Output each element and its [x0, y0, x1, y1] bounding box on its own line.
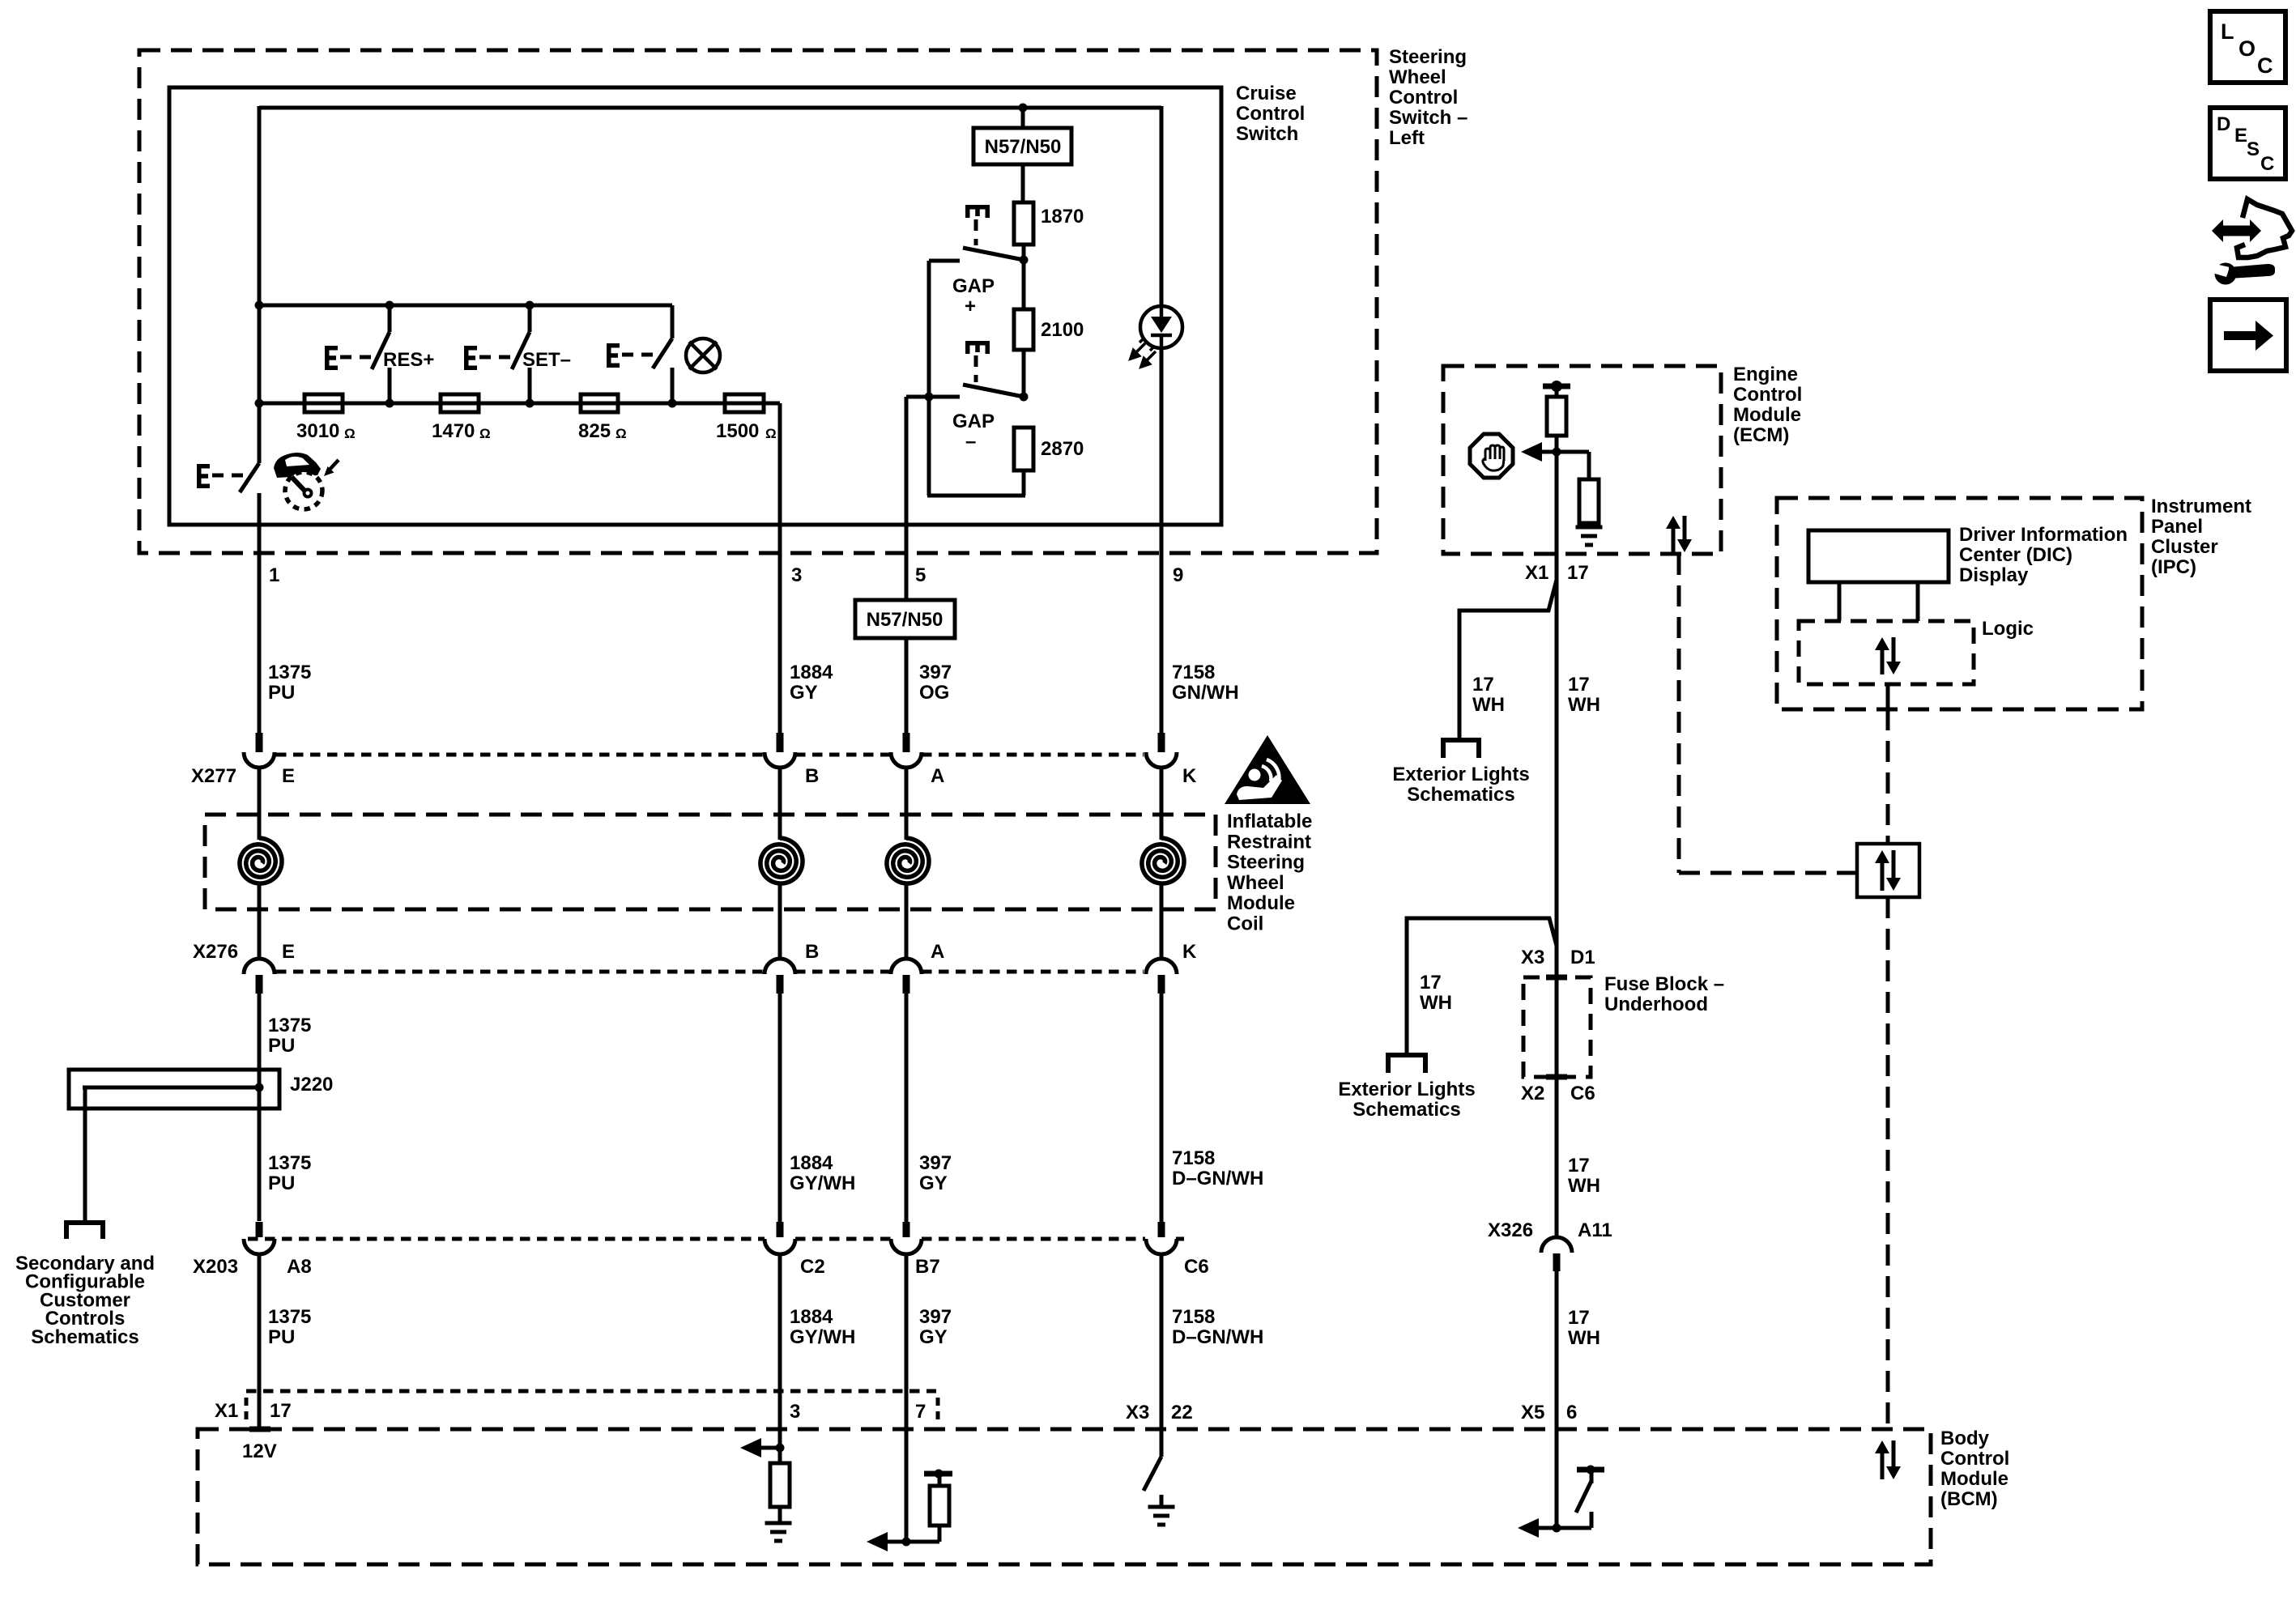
resistor 2870: [1014, 428, 1033, 470]
svg-text:D–GN/WH: D–GN/WH: [1172, 1168, 1263, 1189]
svg-text:E: E: [282, 765, 295, 787]
node: GAP+ junction: [1020, 256, 1029, 265]
pin 3: [778, 525, 782, 733]
svg-text:GY: GY: [919, 1326, 948, 1348]
ground (BCM pin3): [765, 1523, 792, 1541]
BCM connector header row X1: [246, 1389, 936, 1394]
svg-text:RES+: RES+: [383, 349, 434, 371]
svg-text:D: D: [2217, 113, 2230, 135]
icon: cruise control (car+speedometer): [274, 453, 339, 509]
svg-text:Wheel: Wheel: [1227, 872, 1284, 894]
svg-text:Cruise: Cruise: [1236, 83, 1297, 104]
svg-text:+: +: [965, 296, 976, 317]
svg-text:X3: X3: [1126, 1402, 1149, 1423]
tick X1 right: [936, 1398, 940, 1423]
svg-text:1470: 1470: [432, 420, 475, 442]
svg-text:17: 17: [1420, 972, 1442, 994]
svg-text:WH: WH: [1420, 992, 1452, 1014]
node: bus-left junction: [255, 301, 264, 310]
svg-text:Engine: Engine: [1733, 364, 1798, 385]
svg-text:(BCM): (BCM): [1940, 1488, 1998, 1510]
svg-text:Body: Body: [1940, 1428, 1990, 1449]
svg-text:1375: 1375: [268, 1306, 311, 1328]
switch cancel (with lamp): [671, 305, 675, 338]
svg-text:1884: 1884: [790, 1306, 833, 1328]
svg-text:Schematics: Schematics: [1352, 1099, 1460, 1121]
icon: jump-to-location (arrow hand wrench): [2209, 199, 2292, 285]
wire: branch to exterior lights (upper): [1459, 580, 1557, 740]
ground (BCM X3/22): [1148, 1507, 1175, 1525]
wire: ECM 17WH down: [1555, 554, 1559, 946]
svg-text:17: 17: [1472, 674, 1494, 696]
svg-text:Wheel: Wheel: [1389, 66, 1446, 88]
wire pin1 X203->BCM 12V: [258, 1254, 262, 1429]
icon box next-arrow: [2210, 300, 2286, 371]
svg-text:PU: PU: [268, 1035, 295, 1057]
wire pin5 X276->X203: [905, 994, 909, 1222]
wire: N57/N50 drop: [1021, 108, 1025, 128]
svg-text:7158: 7158: [1172, 1306, 1215, 1328]
wire: branch to exterior lights (lower): [1407, 918, 1557, 1055]
pin 5: [905, 525, 909, 733]
svg-text:C2: C2: [800, 1256, 825, 1278]
wire: pin 5 riser: [905, 397, 909, 525]
wire: 1870 to GAP+ junction: [1022, 245, 1026, 262]
svg-text:6: 6: [1566, 1402, 1577, 1423]
splice J220: [69, 1070, 279, 1108]
svg-text:2100: 2100: [1041, 319, 1084, 341]
switch GAP + (resume/accel gap switch): [965, 205, 990, 218]
wire pin1 X276->J220: [258, 994, 262, 1221]
svg-text:Switch: Switch: [1236, 123, 1298, 145]
svg-text:C6: C6: [1184, 1256, 1209, 1278]
svg-text:12V: 12V: [242, 1440, 277, 1462]
dashed box: Instrument Panel Cluster (IPC): [1777, 498, 2142, 709]
BCM pin3: pullup to ground: [776, 1444, 785, 1453]
label box N57/N50 (cruise switch illumination): [973, 128, 1071, 164]
svg-text:Logic: Logic: [1982, 618, 2034, 640]
svg-text:C: C: [2260, 153, 2274, 175]
svg-text:N57/N50: N57/N50: [867, 609, 944, 631]
wire: gap loop left side: [927, 261, 931, 496]
clockspring coil at x=963: [778, 768, 782, 840]
serial data line ECM to gateway: [1677, 554, 1681, 873]
serial data arrows in ECM: [1666, 516, 1692, 552]
connector X277 pin E: [256, 733, 263, 752]
gateway box with arrows: [1857, 844, 1919, 897]
dashed box: Inflatable Restraint Steering Wheel Module Coil: [205, 815, 1216, 909]
resistor 1870: [1014, 202, 1033, 245]
switch cruise on/off (pin1 line): [240, 463, 259, 492]
svg-text:GAP: GAP: [952, 275, 995, 297]
svg-text:S: S: [2247, 138, 2260, 160]
svg-text:17: 17: [270, 1400, 292, 1422]
svg-text:1375: 1375: [268, 662, 311, 683]
dashed box: Engine Control Module (ECM): [1443, 366, 1721, 554]
svg-text:Steering: Steering: [1389, 46, 1467, 68]
resistor 2100: [1022, 260, 1026, 309]
svg-text:GN/WH: GN/WH: [1172, 682, 1239, 704]
svg-text:X3: X3: [1521, 947, 1544, 968]
svg-text:Underhood: Underhood: [1604, 994, 1708, 1015]
svg-text:E: E: [282, 941, 295, 963]
connector X276 pin E: [244, 959, 275, 974]
svg-text:B: B: [805, 765, 819, 787]
svg-text:Coil: Coil: [1227, 913, 1263, 935]
connector X276 pin B: [765, 959, 795, 974]
svg-text:Fuse Block –: Fuse Block –: [1604, 973, 1724, 995]
wire: LED riser x=1434 (pin 9): [1160, 106, 1164, 525]
wire: J220 branch to customer controls: [83, 1087, 87, 1223]
svg-text:Control: Control: [1389, 87, 1458, 109]
lamp symbol (cancel switch illumination): [686, 338, 720, 372]
svg-text:7158: 7158: [1172, 662, 1215, 683]
clockspring coil at x=1434: [1160, 768, 1164, 840]
svg-text:X277: X277: [191, 765, 236, 787]
node: GAP- junction on resistor chain: [1020, 393, 1029, 402]
svg-text:Schematics: Schematics: [31, 1326, 138, 1348]
svg-text:Exterior Lights: Exterior Lights: [1392, 764, 1529, 785]
pin 1: [258, 525, 262, 733]
node: row-left junction: [255, 399, 264, 408]
dashed box: Body Control Module (BCM): [198, 1429, 1931, 1564]
resistor ECM to ground: [1579, 479, 1599, 523]
connector row X203: [248, 1237, 765, 1241]
svg-text:(ECM): (ECM): [1733, 424, 1789, 446]
connector X277 pin B: [777, 733, 784, 752]
connector X277 pin A: [903, 733, 910, 752]
fuse block top terminal: [1546, 975, 1567, 981]
svg-text:N57/N50: N57/N50: [985, 136, 1062, 158]
svg-text:WH: WH: [1472, 694, 1505, 716]
arrow to stop lamp icon: [1521, 442, 1558, 462]
svg-text:1500: 1500: [716, 420, 759, 442]
switch SET-: [526, 301, 535, 310]
svg-text:A: A: [931, 941, 944, 963]
wire: inner top wire from pin1 riser to LED riser: [259, 106, 1161, 110]
svg-text:O: O: [2238, 36, 2256, 61]
svg-text:X1: X1: [1525, 562, 1548, 584]
wire: GAP+ left contact: [929, 259, 960, 263]
fuse block bottom terminal: [1546, 1074, 1567, 1080]
svg-text:D1: D1: [1570, 947, 1595, 968]
BCM pin7: pullup: [902, 1538, 911, 1547]
wire: fuse block down to X326: [1555, 944, 1559, 1237]
svg-text:(IPC): (IPC): [2151, 556, 2196, 578]
svg-text:3: 3: [791, 564, 802, 586]
wire: gap loop bottom: [927, 494, 1025, 498]
svg-text:Ω: Ω: [479, 426, 491, 441]
svg-text:OG: OG: [919, 682, 949, 704]
svg-text:Center (DIC): Center (DIC): [1959, 544, 2072, 566]
svg-text:A11: A11: [1578, 1219, 1612, 1241]
switch blade BCM X3-22: [1144, 1457, 1161, 1491]
icon box LOC: [2210, 11, 2285, 83]
svg-text:17: 17: [1568, 1307, 1590, 1329]
dashed box: Logic: [1799, 621, 1974, 684]
serial data arrows in BCM: [1875, 1440, 1901, 1479]
svg-text:L: L: [2221, 19, 2234, 44]
svg-text:825: 825: [578, 420, 611, 442]
off-page bracket: secondary controls: [66, 1223, 103, 1239]
svg-text:C: C: [2257, 53, 2273, 78]
svg-text:Steering: Steering: [1227, 852, 1305, 874]
svg-text:17: 17: [1568, 1155, 1590, 1177]
svg-text:1: 1: [269, 564, 279, 586]
svg-text:Ω: Ω: [765, 426, 777, 441]
serial data line IPC to gateway: [1886, 709, 1890, 844]
svg-text:WH: WH: [1568, 1327, 1600, 1349]
svg-text:Inflatable: Inflatable: [1227, 811, 1312, 832]
resistor 1500 ohm: [725, 394, 764, 412]
svg-text:1870: 1870: [1041, 206, 1084, 228]
wire ECM right branch to ground: [1557, 450, 1589, 454]
svg-text:17: 17: [1567, 562, 1589, 584]
svg-text:X5: X5: [1521, 1402, 1544, 1423]
wire: GAP- left contact / pin5 tap: [906, 395, 960, 399]
node ECM junction: [1553, 448, 1561, 457]
wire: left riser x=320 (pin 1 feed): [258, 106, 262, 463]
svg-text:GY: GY: [919, 1172, 948, 1194]
connector row X276: [276, 970, 765, 974]
svg-text:A8: A8: [287, 1256, 312, 1278]
outer dashed box: Steering Wheel Control Switch - Left: [139, 50, 1377, 553]
svg-text:WH: WH: [1568, 694, 1600, 716]
connector X277 pin K: [1158, 733, 1165, 752]
pin 9: [1160, 525, 1164, 733]
resistor ECM pullup: [1547, 397, 1566, 436]
LED indicator (cruise engaged lamp): [1131, 306, 1182, 367]
node: junction on top wire feeding N57/N50: [1019, 104, 1028, 113]
solid box: DIC display: [1808, 530, 1949, 582]
serial data arrows in Logic: [1875, 637, 1901, 674]
svg-text:1375: 1375: [268, 1152, 311, 1174]
svg-text:1884: 1884: [790, 1152, 833, 1174]
svg-text:Control: Control: [1940, 1448, 2009, 1470]
label box N57/N50 on pin 5 wire: [855, 600, 955, 638]
connector X203 pin C2: [777, 1222, 784, 1237]
svg-text:7158: 7158: [1172, 1147, 1215, 1169]
connector X203 pin A8: [256, 1222, 263, 1237]
svg-text:Module: Module: [1227, 892, 1295, 914]
icon: cruise disable (hand in octagon): [1470, 434, 1513, 478]
svg-text:PU: PU: [268, 1326, 295, 1348]
svg-text:Cluster: Cluster: [2151, 536, 2218, 558]
svg-text:WH: WH: [1568, 1175, 1600, 1197]
svg-text:A: A: [931, 765, 944, 787]
connector X276 pin K: [1146, 959, 1177, 974]
svg-text:Control: Control: [1733, 384, 1802, 406]
wire: row to pin3 riser: [764, 402, 780, 406]
ground (ECM): [1576, 527, 1603, 545]
svg-text:E: E: [2234, 125, 2247, 147]
wire: resistor row: [259, 402, 780, 406]
svg-text:Module: Module: [1733, 404, 1801, 426]
svg-text:X276: X276: [193, 941, 238, 963]
connector X203 pin B7: [903, 1222, 910, 1237]
terminal 12V: [249, 1427, 270, 1432]
wire: logic to IPC edge: [1886, 684, 1890, 709]
svg-text:Driver Information: Driver Information: [1959, 524, 2128, 546]
wire: X326 to BCM X5: [1555, 1271, 1559, 1429]
svg-text:X1: X1: [215, 1400, 238, 1422]
svg-text:Ω: Ω: [616, 426, 627, 441]
svg-text:3010: 3010: [296, 420, 339, 442]
svg-text:Ω: Ω: [344, 426, 356, 441]
svg-text:X203: X203: [193, 1256, 238, 1278]
svg-text:1375: 1375: [268, 1015, 311, 1036]
svg-text:GAP: GAP: [952, 411, 995, 432]
clockspring coil at x=320: [258, 768, 262, 840]
svg-text:Control: Control: [1236, 103, 1305, 125]
svg-text:PU: PU: [268, 682, 295, 704]
svg-text:397: 397: [919, 662, 952, 683]
connector row X277: [276, 753, 765, 757]
svg-text:X326: X326: [1488, 1219, 1533, 1241]
svg-text:Panel: Panel: [2151, 516, 2203, 538]
svg-text:Schematics: Schematics: [1407, 784, 1514, 806]
svg-text:397: 397: [919, 1152, 952, 1174]
wire K X276->X203: [1160, 994, 1164, 1222]
svg-text:22: 22: [1171, 1402, 1193, 1423]
svg-text:3: 3: [790, 1401, 800, 1423]
wire pin5 X203->BCM: [905, 1254, 909, 1542]
switch GAP - (coast gap switch): [965, 341, 990, 354]
wire: switch bus: [259, 304, 672, 308]
svg-text:K: K: [1182, 765, 1197, 787]
svg-text:C6: C6: [1570, 1083, 1595, 1104]
svg-text:GY/WH: GY/WH: [790, 1172, 855, 1194]
svg-text:Exterior Lights: Exterior Lights: [1338, 1079, 1475, 1100]
svg-text:PU: PU: [268, 1172, 295, 1194]
svg-text:Switch –: Switch –: [1389, 107, 1467, 129]
svg-text:B: B: [805, 941, 819, 963]
svg-text:D–GN/WH: D–GN/WH: [1172, 1326, 1263, 1348]
svg-text:Instrument: Instrument: [2151, 496, 2251, 517]
svg-text:7: 7: [915, 1401, 926, 1423]
terminal in ECM: [1543, 384, 1570, 389]
wire pin3 X276->X203: [778, 994, 782, 1222]
svg-text:SET–: SET–: [522, 349, 571, 371]
svg-text:17: 17: [1568, 674, 1590, 696]
svg-text:Display: Display: [1959, 564, 2029, 586]
svg-text:1884: 1884: [790, 662, 833, 683]
svg-text:GY/WH: GY/WH: [790, 1326, 855, 1348]
icon: airbag warning triangle: [1225, 735, 1310, 804]
solid box: Cruise Control Switch: [169, 87, 1221, 525]
svg-text:GY: GY: [790, 682, 818, 704]
connector X203 pin C6: [1158, 1222, 1165, 1237]
svg-text:–: –: [965, 431, 976, 453]
icon box DESC: [2210, 108, 2285, 179]
resistor 1470 ohm: [441, 394, 479, 412]
switch blade BCM X5-6: [1576, 1481, 1591, 1513]
svg-text:B7: B7: [915, 1256, 940, 1278]
resistor 825 ohm: [581, 394, 618, 412]
serial data line gateway to BCM: [1886, 897, 1890, 1429]
svg-text:Module: Module: [1940, 1468, 2008, 1490]
svg-text:K: K: [1182, 941, 1197, 963]
svg-text:9: 9: [1173, 564, 1183, 586]
terminal bar BCM pin7: [924, 1471, 952, 1477]
tick X1 left: [245, 1398, 249, 1423]
wire K X203->BCM X3: [1160, 1254, 1164, 1457]
wire pin3 X203->BCM: [778, 1254, 782, 1450]
node: GAP- junction on loop: [925, 393, 934, 402]
resistor 3010 ohm: [305, 394, 343, 412]
svg-text:Left: Left: [1389, 127, 1425, 149]
svg-text:X2: X2: [1521, 1083, 1544, 1104]
clockspring coil at x=1119: [905, 768, 909, 840]
wires DIC to logic: [1838, 582, 1842, 621]
switch RES+: [386, 301, 394, 310]
wire: N57/N50 box to resistor 1870: [1021, 164, 1025, 202]
connector X276 pin A: [891, 959, 922, 974]
svg-text:397: 397: [919, 1306, 952, 1328]
svg-text:Restraint: Restraint: [1227, 831, 1311, 853]
svg-text:J220: J220: [290, 1074, 333, 1096]
svg-text:5: 5: [915, 564, 926, 586]
svg-text:2870: 2870: [1041, 438, 1084, 460]
